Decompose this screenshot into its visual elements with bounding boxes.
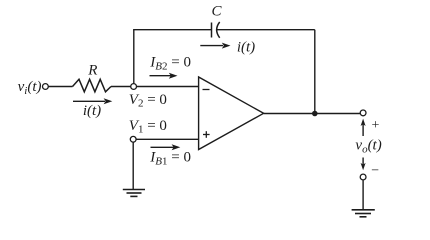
current arrow IB1 (151, 144, 181, 150)
wire: feedback down to output node (314, 30, 316, 114)
wire: resistor to op-amp inverting input (111, 86, 199, 88)
svg-text:V2 = 0: V2 = 0 (129, 92, 167, 110)
wire: vo- terminal down to ground (362, 180, 364, 210)
current arrow i(t) feedback (200, 43, 230, 49)
op-amp inverting marker (minus) (203, 89, 210, 91)
svg-text:R: R (87, 63, 97, 79)
svg-text:i(t): i(t) (237, 39, 255, 55)
terminal: input vi(t) (43, 84, 49, 90)
wire: feedback top left (133, 29, 211, 31)
ground (left) (123, 190, 145, 197)
terminal vo- (360, 174, 366, 180)
wire: V1 terminal down to ground (132, 143, 134, 190)
svg-text:C: C (211, 4, 222, 20)
polarity arrow down (361, 158, 366, 171)
svg-text:V1 = 0: V1 = 0 (129, 118, 167, 136)
svg-text:+: + (371, 118, 379, 133)
wire: feedback top right (217, 29, 315, 31)
wire: feedback node up (133, 30, 135, 84)
junction node (output) (312, 111, 318, 117)
ground (right) (352, 210, 375, 217)
svg-text:vo(t): vo(t) (355, 137, 381, 155)
wire: input terminal to resistor (48, 86, 72, 88)
wire: noninverting input (136, 138, 199, 140)
svg-text:i(t): i(t) (83, 103, 101, 119)
svg-text:−: − (371, 163, 379, 178)
terminal V1 (130, 136, 136, 142)
node V2 terminal (131, 84, 137, 90)
polarity arrow up (361, 119, 366, 136)
op-amp U1 (199, 77, 264, 150)
current arrow i(t) at input (73, 98, 112, 104)
svg-text:vi(t): vi(t) (18, 79, 42, 97)
current arrow IB2 (150, 73, 178, 79)
resistor R (73, 79, 112, 92)
capacitor C (212, 22, 220, 38)
wire: op-amp output (264, 113, 361, 115)
op-amp noninverting marker (plus) (203, 131, 210, 138)
terminal vo+ (360, 110, 366, 116)
